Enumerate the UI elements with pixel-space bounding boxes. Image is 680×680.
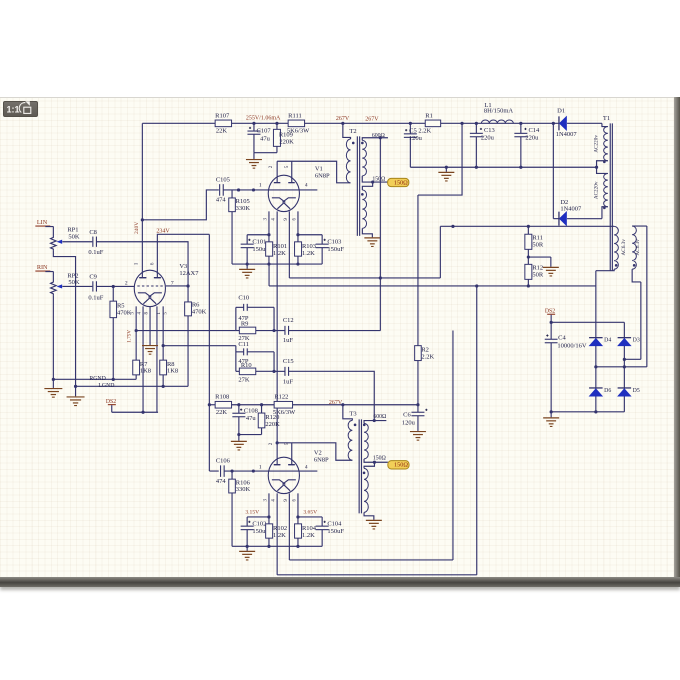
svg-text:C12: C12 (283, 317, 294, 324)
svg-text:2: 2 (269, 165, 274, 168)
svg-text:120u: 120u (402, 419, 416, 426)
net tag 150ohm T3 (388, 461, 409, 469)
sheet bottom border edge (0, 577, 680, 587)
transformer T3 core (359, 419, 361, 513)
transformer T2 tap (362, 176, 387, 184)
svg-text:3: 3 (263, 218, 268, 221)
label V3 12AX7 (179, 263, 199, 277)
wire heater rail takeoff (268, 264, 270, 286)
ground below C102 (239, 546, 255, 560)
ground on PSU rail (438, 167, 454, 181)
svg-text:2.2K: 2.2K (421, 354, 434, 361)
resistor R103 (295, 235, 316, 264)
tube V2 (268, 457, 299, 493)
svg-text:R108: R108 (215, 394, 229, 401)
svg-text:C9: C9 (89, 273, 97, 280)
diode D2 (553, 199, 602, 226)
wire C106 to V2 (224, 469, 317, 472)
wire V3 grid 7 line (166, 285, 188, 287)
wire V2 cathode leads (269, 493, 298, 574)
svg-text:220K: 220K (279, 139, 294, 146)
wire C9 to V3 grid 2 (96, 285, 134, 288)
svg-text:5K6/3W: 5K6/3W (273, 409, 296, 416)
svg-text:22K: 22K (216, 409, 228, 416)
transformer T1 phase dot C (615, 264, 618, 267)
potentiometer RP1 (51, 227, 80, 251)
label 3.65V (303, 510, 317, 516)
svg-text:AC6.3v: AC6.3v (621, 239, 627, 256)
svg-text:234V: 234V (156, 228, 170, 234)
wire block2 right side (272, 352, 275, 373)
svg-text:9: 9 (284, 499, 289, 502)
capacitor C8 (88, 229, 103, 256)
wire C15 output (289, 371, 375, 420)
svg-text:R10: R10 (241, 362, 252, 369)
svg-text:150Ω: 150Ω (394, 462, 408, 469)
svg-text:C13: C13 (484, 127, 495, 134)
svg-text:150Ω: 150Ω (373, 456, 387, 462)
ground below C107 (246, 160, 262, 169)
svg-text:1K8: 1K8 (167, 368, 178, 375)
svg-text:330K: 330K (236, 486, 251, 493)
svg-text:R11: R11 (532, 234, 543, 241)
label V1 6N8P (315, 166, 330, 180)
port DS2 low voltage (545, 309, 555, 323)
wire bridge left column (595, 271, 597, 412)
svg-text:LGND: LGND (98, 383, 114, 389)
svg-text:6: 6 (292, 218, 297, 221)
svg-text:C14: C14 (528, 127, 540, 134)
label 255V/1.06mA (246, 116, 281, 122)
svg-text:C108: C108 (244, 408, 258, 415)
svg-text:9: 9 (284, 218, 289, 221)
transformer T2 label (349, 128, 356, 135)
resistor R10 (236, 362, 274, 384)
svg-text:R104: R104 (302, 525, 317, 532)
wire V2 grid line (209, 470, 218, 472)
resistor R122 (273, 394, 296, 416)
wire RP1 to C8 (62, 241, 92, 243)
transformer T2 core (357, 136, 359, 236)
svg-text:47u: 47u (246, 415, 257, 422)
svg-text:V1: V1 (315, 166, 323, 173)
capacitor C9 (88, 273, 103, 301)
potentiometer RP2 (51, 272, 80, 296)
svg-text:474: 474 (216, 197, 227, 204)
wire V1 cathode leads (269, 211, 298, 443)
resistor R6 (185, 284, 207, 386)
wire output node dot (416, 403, 419, 406)
svg-text:AC220v: AC220v (594, 181, 600, 199)
resistor R5 (110, 286, 132, 379)
wire bridge bottom rail (550, 410, 625, 413)
wire V3 plate feed long drop (208, 234, 211, 471)
ground below V3 (142, 346, 158, 355)
svg-text:220K: 220K (265, 421, 280, 428)
wire V1 cathode bus (232, 262, 322, 265)
pin 1 label V3 (135, 262, 140, 265)
resistor R107 (215, 112, 231, 134)
resistor R104 (295, 517, 317, 546)
svg-text:267V: 267V (336, 116, 350, 122)
wire heater drop left (439, 226, 441, 278)
net tag 150ohm T2 (388, 178, 409, 186)
pin digit labels V3 bottom (130, 312, 168, 315)
svg-text:150Ω: 150Ω (372, 177, 386, 183)
svg-text:R107: R107 (215, 112, 230, 119)
svg-text:220u: 220u (481, 135, 495, 142)
wire 267V bottom rail (209, 403, 418, 406)
resistor R12 (525, 264, 544, 287)
svg-text:22K: 22K (216, 127, 228, 134)
svg-text:C10: C10 (238, 294, 249, 301)
wire rail to T3 primary (343, 405, 353, 421)
resistor R2 (415, 195, 435, 405)
wire V3 heater return (112, 411, 158, 414)
svg-text:2: 2 (125, 281, 128, 287)
wire 600ohm T2 output down (379, 138, 381, 331)
label AC6.3v left (621, 239, 627, 256)
wire heater bottom rail (269, 284, 596, 287)
transformer T2 primary (343, 123, 351, 183)
svg-text:R103: R103 (302, 243, 316, 250)
svg-text:150Ω: 150Ω (394, 179, 408, 186)
capacitor C104 (316, 517, 345, 546)
svg-text:DS2: DS2 (106, 399, 116, 405)
svg-text:C106: C106 (216, 457, 231, 464)
wire V1 grid line (223, 188, 317, 191)
resistor R8 (160, 346, 178, 388)
resistor R106 (229, 471, 251, 546)
svg-text:1: 1 (157, 312, 162, 315)
svg-text:3.65V: 3.65V (303, 510, 317, 516)
label 1.75V rotated (126, 330, 132, 343)
transformer T3 secondary lower (363, 462, 375, 520)
pin digit labels V1 bottom (263, 218, 297, 221)
tube V3 grid dashes (137, 285, 163, 287)
wire LGND (74, 383, 188, 389)
wire V2 cathode bus (232, 545, 322, 548)
svg-text:1.75V: 1.75V (126, 330, 132, 343)
svg-text:C103: C103 (327, 238, 341, 245)
svg-text:6: 6 (292, 499, 297, 502)
wire RP1 bottom (53, 250, 75, 386)
svg-text:150uF: 150uF (327, 246, 344, 253)
transformer T2 secondary upper (362, 136, 388, 176)
wire block1 sides (236, 307, 276, 332)
svg-text:RGND: RGND (89, 376, 105, 382)
resistor R109 (273, 123, 294, 146)
svg-text:0.1uF: 0.1uF (88, 249, 103, 256)
svg-text:R1: R1 (425, 112, 433, 119)
svg-text:AC220v: AC220v (594, 135, 600, 153)
capacitor C102 (241, 517, 270, 546)
svg-text:50R: 50R (532, 241, 544, 248)
svg-text:267V: 267V (329, 400, 343, 406)
ground LGND (67, 386, 85, 405)
svg-text:4: 4 (271, 499, 276, 502)
svg-text:V2: V2 (314, 449, 322, 456)
svg-text:C4: C4 (558, 334, 566, 341)
svg-text:47u: 47u (260, 136, 271, 143)
svg-text:4: 4 (305, 464, 308, 470)
transformer T1 core (610, 123, 612, 270)
svg-text:470K: 470K (192, 308, 207, 315)
pin 2 label V3 (125, 281, 128, 287)
schematic sheet background (0, 97, 675, 578)
svg-text:1.2K: 1.2K (302, 250, 315, 257)
svg-text:12AX7: 12AX7 (179, 270, 199, 277)
svg-text:1K8: 1K8 (140, 368, 151, 375)
capacitor C108 (232, 405, 258, 441)
ground below T3 (366, 520, 382, 529)
ground at R11/R12 (543, 267, 559, 276)
tube V1 (268, 175, 299, 211)
svg-text:R102: R102 (273, 525, 287, 532)
ground RGND (44, 379, 62, 397)
capacitor C6 (402, 405, 428, 431)
pin 2 label V2 (269, 442, 290, 445)
svg-text:120u: 120u (409, 135, 423, 142)
svg-text:5: 5 (285, 165, 290, 168)
svg-text:150uF: 150uF (327, 528, 344, 535)
wire C8 to V3 grid 7 (96, 242, 188, 286)
transformer T1 label (603, 115, 610, 122)
wire RP2 to C9 (62, 285, 92, 287)
svg-text:1:1: 1:1 (7, 105, 20, 115)
resistor R102 (266, 517, 287, 546)
svg-text:1: 1 (135, 262, 140, 265)
zoom 1:1 badge (3, 101, 38, 117)
pin 7 label V3 (171, 281, 174, 287)
junction dots on B+ rail (252, 122, 555, 125)
svg-text:240V: 240V (134, 222, 140, 234)
svg-text:R111: R111 (288, 112, 302, 119)
label 600ohm T2 (372, 133, 386, 139)
pin 2 label V1 (269, 165, 274, 168)
resistor R7 (133, 360, 151, 379)
svg-text:D1: D1 (557, 107, 565, 114)
capacitor C106 (216, 457, 231, 485)
wire PSU ground rail (410, 166, 598, 169)
resistor R120 (258, 405, 280, 428)
wire branch to C105 (142, 190, 219, 220)
capacitor C101 (241, 235, 270, 264)
svg-text:C8: C8 (89, 229, 97, 236)
wire heater top rail (440, 225, 614, 228)
diode D1 (556, 107, 578, 138)
capacitor C5 (404, 123, 432, 167)
label 240V rotated (134, 222, 140, 234)
transformer T3 secondary upper (364, 419, 386, 459)
wire C12 output (289, 330, 381, 332)
svg-text:50K: 50K (68, 233, 80, 240)
svg-text:D3: D3 (633, 338, 640, 344)
resistor R11 (525, 226, 544, 264)
svg-text:C107: C107 (257, 128, 272, 135)
capacitor C14 (514, 123, 540, 167)
svg-text:C11: C11 (238, 341, 249, 348)
label V2 6N8P (314, 449, 329, 463)
wire B+ 255V top rail (142, 122, 602, 124)
transformer T1 phase dot B (603, 207, 606, 210)
svg-text:330K: 330K (236, 205, 251, 212)
badge 1:1 text (7, 105, 20, 115)
wire V2 output loop (289, 331, 453, 560)
wire V2 return loop (277, 286, 477, 575)
svg-text:1.2K: 1.2K (273, 532, 286, 539)
svg-text:5: 5 (163, 312, 168, 315)
label AC220v lower (594, 181, 600, 199)
resistor R105 (229, 190, 251, 264)
svg-text:C104: C104 (327, 520, 342, 527)
svg-text:LIN: LIN (37, 219, 48, 226)
svg-text:267V: 267V (365, 117, 379, 123)
port RIN (35, 264, 53, 272)
ground below C108 (231, 441, 247, 450)
wire V1 top buses (247, 233, 322, 236)
transformer T1 heater winding C (596, 226, 618, 270)
svg-text:D4: D4 (604, 338, 611, 344)
svg-text:D5: D5 (633, 388, 640, 394)
wire V1 cathode to 600ohm junction (289, 276, 440, 279)
diode D3 (618, 338, 640, 346)
svg-text:D6: D6 (604, 388, 611, 394)
transformer T3 tap (364, 456, 388, 464)
wire V3 plate 6 (157, 234, 209, 277)
ground below C4 (543, 412, 559, 427)
transformer T1 phase dot D (633, 264, 636, 267)
transformer T1 phase dot A (603, 161, 606, 164)
svg-text:3.15V: 3.15V (245, 510, 259, 516)
wire B+ down to V3 plate 1 (141, 123, 144, 277)
wire C107/R109 bottoms (254, 146, 277, 159)
wire V3 pin3 to block1 (136, 330, 236, 332)
capacitor C107 (247, 123, 271, 152)
label 267V right (365, 117, 379, 123)
transformer T2 phase dots (352, 142, 364, 145)
label AC6.3v right (635, 239, 641, 256)
wire V2 plate leads (276, 441, 353, 464)
transformer T1 heater winding D (632, 226, 647, 282)
tube V2 plate bars (274, 464, 295, 466)
port DS2 heater (106, 399, 116, 412)
svg-text:2: 2 (269, 442, 274, 445)
wire V2 top buses (247, 515, 322, 518)
svg-text:1.2K: 1.2K (302, 532, 315, 539)
svg-text:AC6.3v: AC6.3v (635, 239, 641, 256)
sheet right border edge (674, 97, 680, 577)
svg-text:6N8P: 6N8P (314, 456, 329, 463)
svg-text:8H/150mA: 8H/150mA (484, 108, 514, 115)
ground below C101 (239, 264, 255, 278)
svg-text:R9: R9 (241, 321, 249, 328)
badge fit-page icon (19, 101, 31, 113)
label 3.15V (245, 510, 259, 516)
label 234V (156, 228, 170, 234)
label 267V bottom (329, 400, 343, 406)
diode D5 (618, 388, 640, 396)
resistor R9 (236, 321, 274, 342)
ground below T2 (364, 238, 380, 247)
svg-text:27K: 27K (238, 376, 250, 383)
label 267V left (336, 116, 350, 122)
svg-text:6: 6 (151, 262, 156, 265)
capacitor C10 (236, 294, 274, 322)
svg-text:1N4007: 1N4007 (556, 131, 578, 138)
inductor L1 (481, 102, 513, 123)
svg-text:DS2: DS2 (545, 309, 555, 315)
svg-text:255V/1.06mA: 255V/1.06mA (246, 116, 281, 122)
capacitor C103 (316, 235, 345, 264)
ground below C6 (410, 432, 426, 441)
svg-text:0.1uF: 0.1uF (88, 295, 103, 302)
transformer T2 secondary lower (361, 182, 373, 237)
svg-text:C5 2.2K: C5 2.2K (409, 127, 431, 134)
svg-text:600Ω: 600Ω (372, 133, 386, 139)
pin 5 label V1 (285, 165, 290, 168)
diode D6 (589, 388, 611, 396)
svg-text:3: 3 (263, 499, 268, 502)
wire V1 plate leads (277, 161, 350, 183)
svg-text:4: 4 (305, 183, 308, 189)
svg-text:RIN: RIN (37, 264, 48, 271)
svg-text:V3: V3 (179, 263, 187, 270)
wire bridge top rail (550, 321, 625, 324)
diode D4 (589, 338, 611, 346)
svg-text:C101: C101 (252, 238, 266, 245)
wire R2 top feed (418, 123, 462, 195)
resistor R1 (425, 112, 440, 126)
capacitor C15 (274, 358, 294, 385)
svg-text:1.2K: 1.2K (273, 250, 286, 257)
svg-text:C102: C102 (252, 520, 266, 527)
capacitor C105 (216, 177, 230, 204)
svg-text:10000/16V: 10000/16V (557, 342, 587, 349)
svg-text:R2: R2 (421, 347, 429, 354)
wire bridge right column (623, 322, 625, 412)
wire V3 pin8 to block2 (163, 346, 236, 372)
transformer T1 primary winding A (597, 123, 608, 173)
capacitor C4 (545, 322, 587, 412)
pin digit labels V2 bottom (263, 499, 297, 502)
wire C108/R120 bottoms (237, 428, 261, 436)
svg-text:50R: 50R (532, 272, 544, 279)
tube V3 (134, 270, 165, 306)
svg-text:1uF: 1uF (283, 337, 294, 344)
pin 1 label V1 (259, 183, 262, 189)
wire R11 R12 midpoint ground (527, 255, 551, 266)
resistor R108 (215, 394, 231, 416)
transformer T3 phase dots (354, 424, 366, 427)
svg-text:C105: C105 (216, 177, 230, 184)
transformer T3 primary (348, 420, 352, 460)
svg-text:1: 1 (259, 464, 262, 470)
wire RP2 bottom (52, 295, 54, 379)
tube V3 plate bars (139, 277, 161, 279)
wire V3 bottom leads (135, 306, 165, 412)
svg-text:6N8P: 6N8P (315, 173, 330, 180)
svg-text:1: 1 (259, 183, 262, 189)
svg-text:474: 474 (216, 478, 227, 485)
resistor R111 (287, 112, 310, 134)
svg-text:4: 4 (137, 312, 142, 315)
svg-text:1N4007: 1N4007 (560, 205, 582, 212)
transformer T1 primary winding B (602, 173, 608, 218)
svg-text:C15: C15 (283, 358, 294, 365)
pin 4 label V1 (305, 183, 308, 189)
wire bridge mid rail (594, 226, 647, 368)
